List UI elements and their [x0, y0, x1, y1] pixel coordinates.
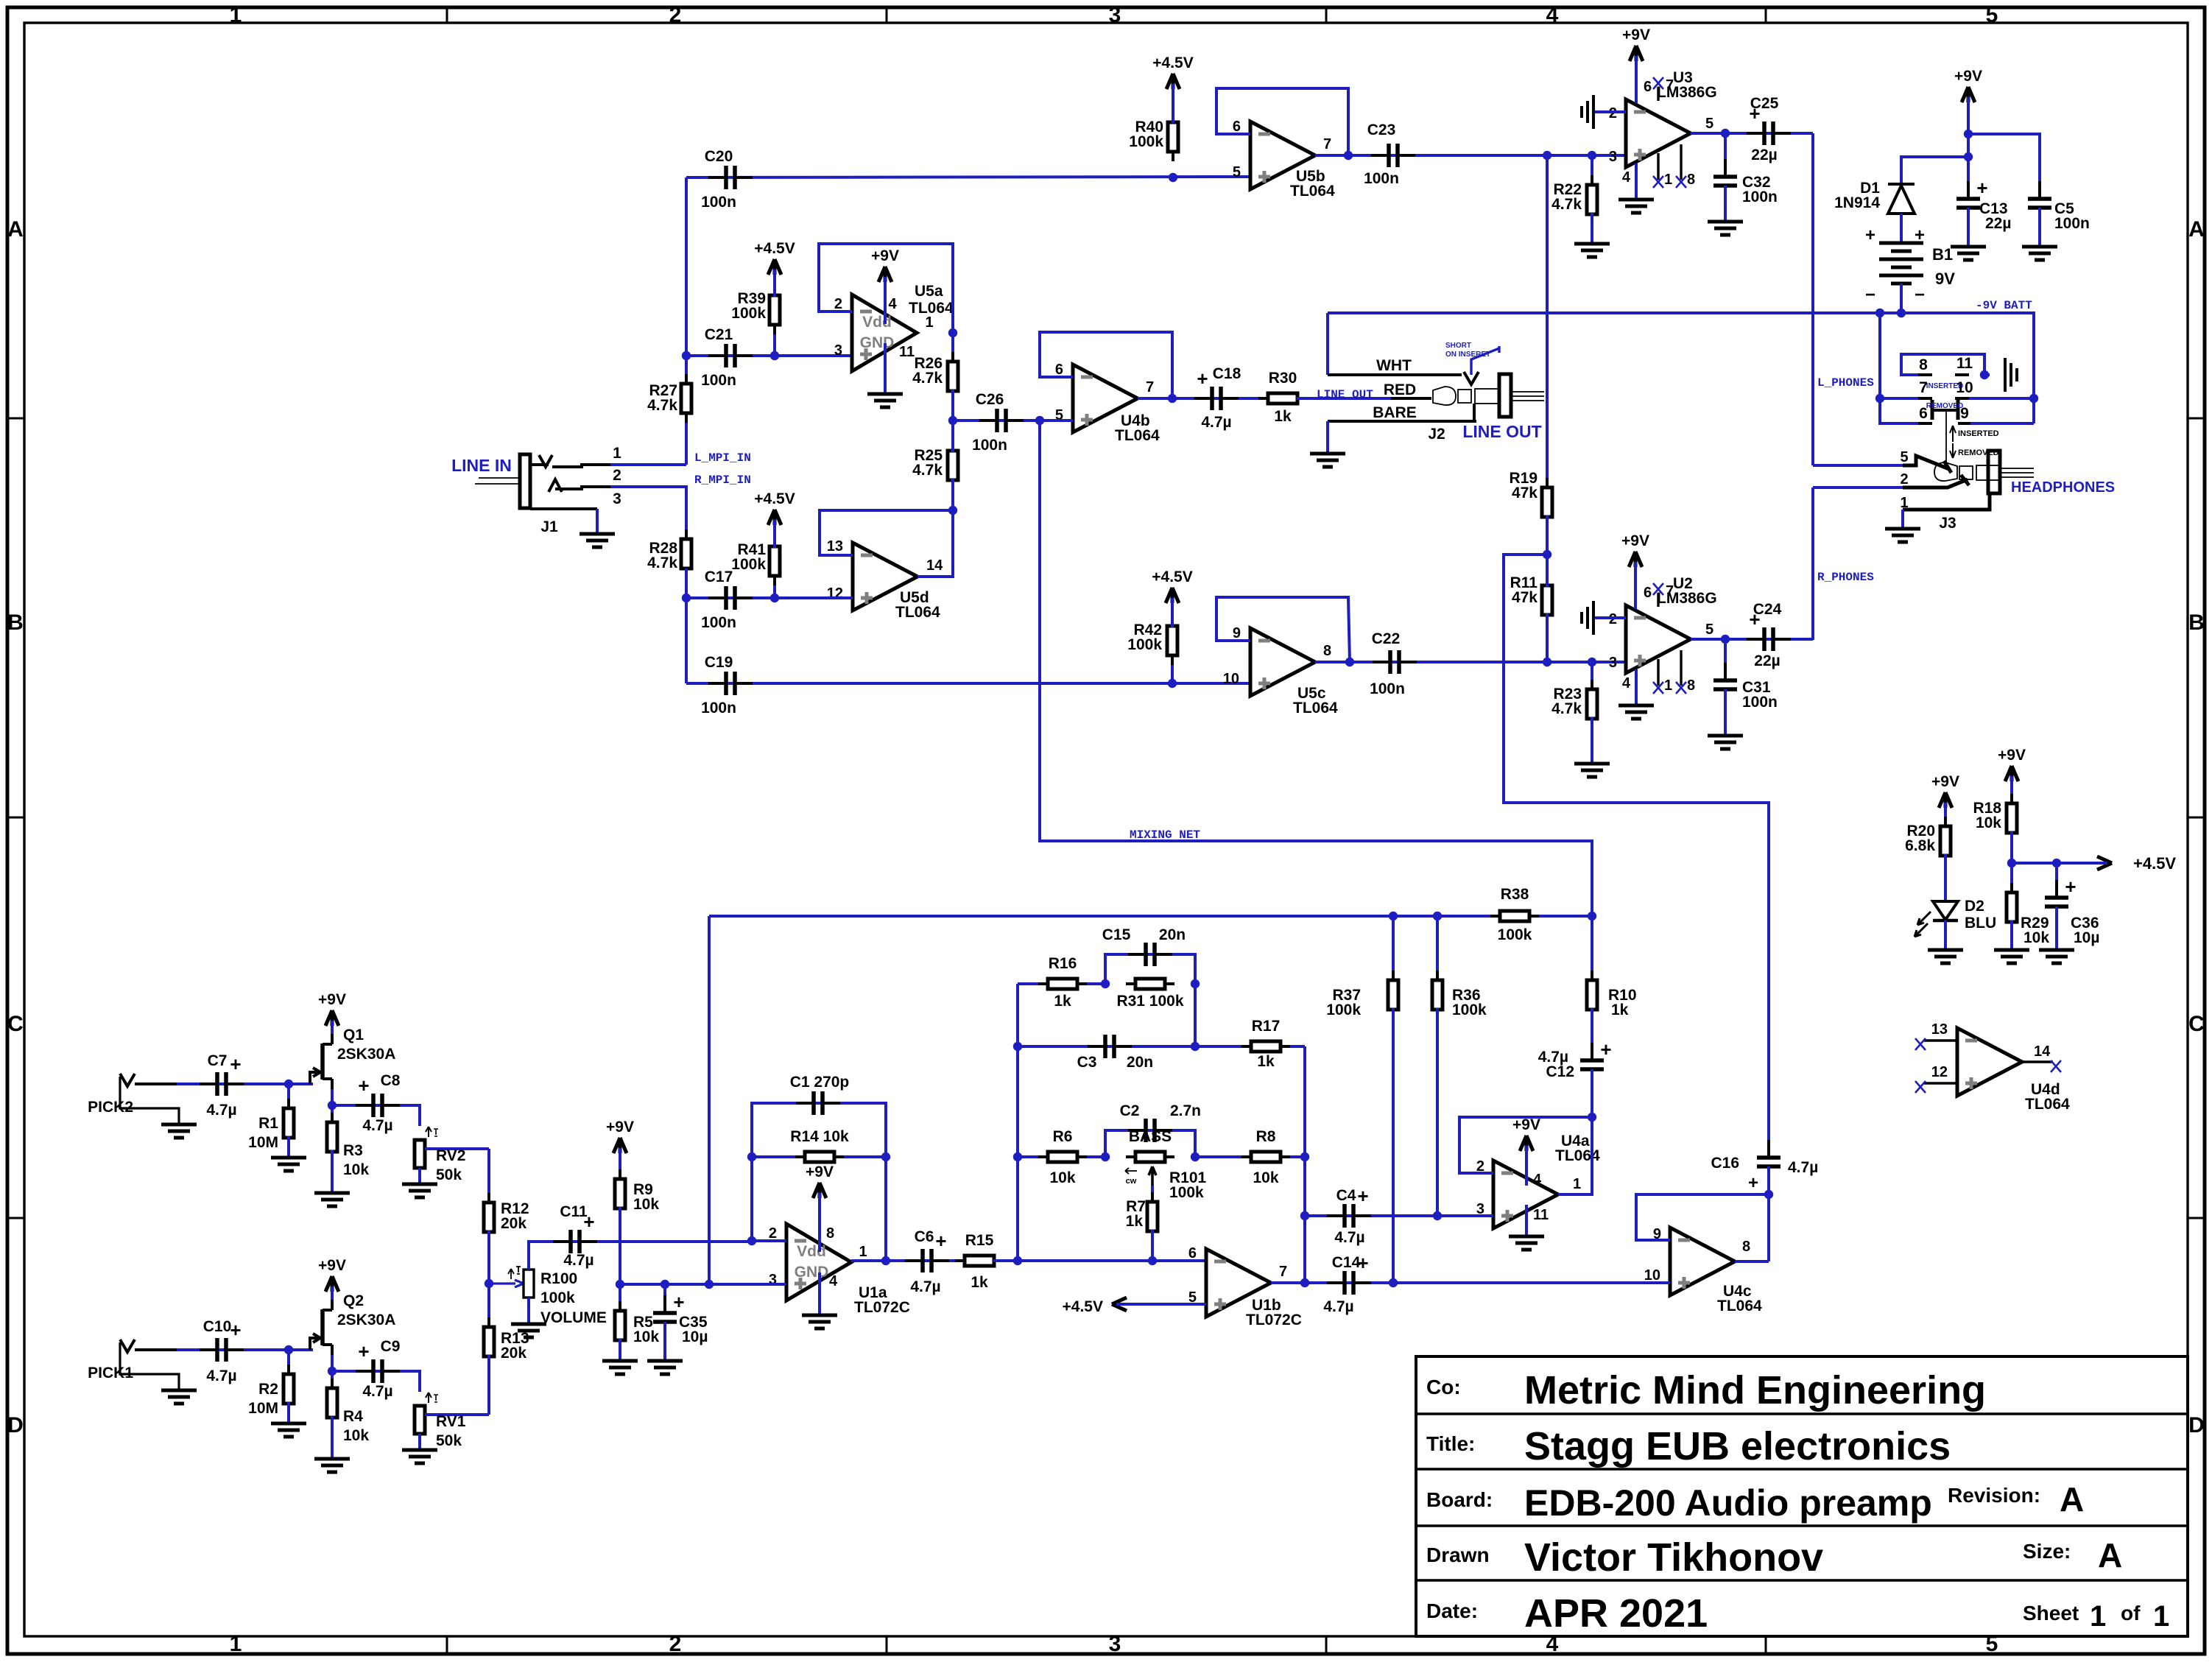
- svg-text:B: B: [7, 610, 24, 635]
- svg-text:B: B: [2188, 610, 2205, 635]
- svg-text:+: +: [230, 1319, 241, 1341]
- wire U4a feedback: [1459, 1117, 1592, 1173]
- svg-text:RV1: RV1: [436, 1413, 466, 1430]
- wire R17 to U1b output column: [1303, 1046, 1306, 1283]
- svg-text:J2: J2: [1428, 426, 1445, 443]
- svg-text:C10: C10: [203, 1318, 232, 1335]
- svg-text:+4.5V: +4.5V: [754, 490, 795, 507]
- svg-text:INSERTED: INSERTED: [1958, 429, 1999, 438]
- svg-text:TL064: TL064: [895, 604, 940, 621]
- svg-text:4: 4: [829, 1273, 838, 1289]
- svg-text:100n: 100n: [701, 372, 736, 389]
- capacitor C12 4.7u: [1591, 1043, 1593, 1060]
- transistor Q1 2SK30A: [320, 1043, 325, 1080]
- svg-text:2: 2: [669, 1632, 682, 1656]
- svg-text:+: +: [1865, 225, 1875, 245]
- op-amp U4c: [1670, 1228, 1735, 1295]
- svg-text:D: D: [2188, 1413, 2205, 1437]
- +4.5V output arrow: [2097, 856, 2112, 870]
- svg-text:Board:: Board:: [1426, 1488, 1493, 1511]
- ground at PICK1: [161, 1389, 197, 1393]
- junction U1a output: [881, 1256, 890, 1265]
- svg-text:2: 2: [613, 467, 621, 484]
- svg-text:22µ: 22µ: [1754, 652, 1780, 669]
- junction battery line B1: [1897, 309, 1906, 317]
- op-amp U1a: [786, 1224, 851, 1300]
- op-amp U5b: [1250, 122, 1315, 189]
- resistor R17: [1195, 1045, 1305, 1048]
- junction R14 right: [881, 1152, 890, 1161]
- svg-text:4.7µ: 4.7µ: [206, 1367, 236, 1384]
- svg-text:BASS: BASS: [1129, 1128, 1172, 1145]
- svg-text:MIXING NET: MIXING NET: [1130, 828, 1200, 842]
- svg-text:+9V: +9V: [1998, 747, 2026, 764]
- svg-text:+: +: [2065, 876, 2076, 898]
- connector PICK1: [120, 1340, 135, 1352]
- svg-text:BARE: BARE: [1373, 404, 1417, 421]
- resistor R19: [1546, 155, 1549, 489]
- svg-text:LINE OUT: LINE OUT: [1317, 388, 1373, 401]
- svg-text:1: 1: [1664, 677, 1672, 694]
- svg-text:10M: 10M: [248, 1400, 278, 1417]
- svg-text:Vdd: Vdd: [797, 1243, 826, 1260]
- svg-text:LINE OUT: LINE OUT: [1462, 422, 1541, 441]
- svg-text:BLU: BLU: [1965, 915, 1996, 932]
- svg-text:20n: 20n: [1127, 1054, 1153, 1071]
- capacitor C14 4.7u: [1305, 1281, 1670, 1284]
- svg-text:1: 1: [613, 445, 621, 462]
- svg-text:C23: C23: [1367, 122, 1396, 138]
- op-amp U4b: [1073, 365, 1138, 432]
- svg-text:8: 8: [1742, 1239, 1750, 1255]
- resistor R22: [1591, 155, 1593, 186]
- wire U4b feedback: [1040, 332, 1172, 398]
- junction U5c output: [1345, 658, 1354, 666]
- svg-text:100n: 100n: [701, 194, 736, 211]
- svg-text:4.7µ: 4.7µ: [206, 1102, 236, 1119]
- svg-text:100n: 100n: [972, 437, 1007, 454]
- svg-text:R14 10k: R14 10k: [790, 1128, 849, 1145]
- ground at U5a: [867, 393, 903, 396]
- svg-text:22µ: 22µ: [1985, 215, 2011, 232]
- svg-text:+: +: [358, 1074, 369, 1096]
- svg-text:100k: 100k: [731, 556, 766, 573]
- svg-text:9: 9: [1960, 405, 1969, 422]
- svg-text:A: A: [7, 217, 24, 242]
- svg-text:TL072C: TL072C: [1246, 1312, 1302, 1328]
- op-amp U5c: [1250, 628, 1315, 696]
- junction C23/R19 column: [1543, 151, 1551, 160]
- svg-text:D2: D2: [1965, 898, 1984, 915]
- junction R38 right / mixing net: [1588, 912, 1596, 920]
- capacitor C18 4.7u: [1172, 397, 1270, 400]
- svg-text:100n: 100n: [1370, 680, 1405, 697]
- svg-text:+: +: [1748, 1173, 1758, 1193]
- svg-text:+9V: +9V: [806, 1164, 834, 1180]
- svg-text:C22: C22: [1372, 630, 1401, 647]
- resistor R27: [685, 356, 688, 465]
- svg-text:9: 9: [1233, 625, 1241, 641]
- svg-text:1: 1: [2153, 1600, 2169, 1633]
- svg-text:4.7µ: 4.7µ: [362, 1117, 392, 1134]
- svg-text:2: 2: [834, 296, 842, 312]
- svg-text:13: 13: [827, 538, 843, 555]
- svg-text:R30: R30: [1269, 370, 1297, 387]
- junction R6 left: [1013, 1152, 1022, 1161]
- svg-text:4.7µ: 4.7µ: [362, 1383, 392, 1400]
- sideways ground at U2 pin2: [1595, 616, 1626, 619]
- svg-text:R8: R8: [1256, 1128, 1276, 1145]
- svg-text:+9V: +9V: [1622, 27, 1650, 43]
- svg-text:C: C: [7, 1012, 24, 1036]
- svg-text:VOLUME: VOLUME: [540, 1309, 607, 1326]
- svg-text:C25: C25: [1750, 95, 1779, 112]
- svg-text:Q1: Q1: [343, 1027, 364, 1043]
- ground at R4: [314, 1457, 350, 1461]
- junction C35 top: [661, 1280, 669, 1289]
- svg-text:PICK2: PICK2: [88, 1099, 133, 1116]
- junction pin7: [1875, 394, 1884, 403]
- svg-text:6: 6: [1644, 79, 1652, 95]
- capacitor C21: [686, 354, 852, 357]
- svg-text:2SK30A: 2SK30A: [337, 1312, 395, 1328]
- svg-text:20n: 20n: [1159, 926, 1186, 943]
- wire C20 net vertical: [685, 177, 688, 356]
- svg-text:-9V BATT: -9V BATT: [1976, 299, 2032, 312]
- svg-text:Date:: Date:: [1426, 1599, 1478, 1622]
- svg-text:Stagg EUB electronics: Stagg EUB electronics: [1524, 1424, 1951, 1468]
- wire +4.5V node: [2012, 862, 2057, 865]
- svg-text:4.7µ: 4.7µ: [563, 1252, 593, 1269]
- wire +9V to C5: [1968, 134, 2040, 193]
- svg-text:10k: 10k: [343, 1161, 369, 1178]
- svg-text:7: 7: [1666, 77, 1674, 94]
- svg-text:10µ: 10µ: [2074, 929, 2099, 946]
- svg-text:47k: 47k: [1512, 485, 1538, 501]
- svg-text:12: 12: [1931, 1064, 1948, 1080]
- capacitor C8 4.7u: [332, 1105, 420, 1126]
- svg-text:B1: B1: [1932, 245, 1953, 264]
- junction pin10: [2029, 394, 2038, 403]
- svg-text:+9V: +9V: [1954, 68, 1982, 85]
- svg-text:100k: 100k: [1326, 1002, 1361, 1018]
- svg-text:10: 10: [1956, 379, 1973, 396]
- resistor R11: [1546, 576, 1549, 585]
- svg-text:10k: 10k: [1049, 1169, 1075, 1186]
- svg-text:11: 11: [899, 344, 915, 360]
- svg-text:3: 3: [1609, 655, 1617, 671]
- svg-text:TL064: TL064: [909, 300, 954, 317]
- wire tone column left: [1016, 984, 1019, 1261]
- svg-text:REMOVED: REMOVED: [1926, 402, 1964, 410]
- svg-text:A: A: [2098, 1536, 2122, 1574]
- svg-text:+9V: +9V: [1512, 1116, 1540, 1133]
- diode D1 1N914: [1888, 183, 1915, 186]
- sideways ground at U3 pin2: [1595, 110, 1626, 113]
- svg-text:C7: C7: [208, 1052, 228, 1069]
- wire U1a output to C6: [851, 1259, 886, 1262]
- junction C21/R39: [770, 351, 779, 360]
- svg-text:4.7k: 4.7k: [647, 555, 677, 571]
- wire U5a pin11 to ground: [884, 343, 887, 394]
- junction pin11: [1980, 370, 1989, 379]
- svg-text:4: 4: [1622, 169, 1631, 186]
- potentiometer RV1 50k: [415, 1406, 425, 1434]
- wire U5d feedback: [820, 510, 953, 555]
- svg-text:C12: C12: [1546, 1063, 1574, 1080]
- svg-text:100n: 100n: [701, 700, 736, 717]
- resistor R30: [1258, 397, 1268, 400]
- svg-text:14: 14: [2034, 1043, 2051, 1060]
- svg-text:+: +: [1976, 177, 1987, 199]
- wire U1a pin3 row: [620, 1283, 786, 1286]
- svg-text:+9V: +9V: [1931, 773, 1959, 790]
- svg-text:C16: C16: [1711, 1155, 1739, 1172]
- junction C3 left: [1013, 1042, 1022, 1051]
- wire Q2 source: [331, 1355, 334, 1371]
- svg-text:2: 2: [669, 3, 682, 27]
- svg-text:Victor Tikhonov: Victor Tikhonov: [1524, 1535, 1823, 1580]
- ground at R2: [271, 1422, 306, 1426]
- svg-text:5: 5: [1705, 116, 1713, 132]
- svg-text:C1 270p: C1 270p: [790, 1074, 850, 1091]
- wire B1 minus to switch net: [1900, 284, 1903, 313]
- svg-text:+9V: +9V: [871, 247, 899, 264]
- ground at R3: [314, 1191, 350, 1195]
- svg-text:C8: C8: [381, 1072, 401, 1089]
- svg-text:C: C: [2188, 1012, 2205, 1036]
- capacitor C15 branch: [1105, 954, 1195, 984]
- battery B1 9V: [1879, 242, 1923, 245]
- svg-text:100k: 100k: [731, 305, 766, 322]
- svg-text:100k: 100k: [540, 1289, 575, 1306]
- svg-text:1k: 1k: [971, 1274, 988, 1291]
- svg-text:10: 10: [1644, 1267, 1660, 1284]
- wire R14 right to U1a output: [884, 1157, 887, 1261]
- svg-text:1: 1: [859, 1244, 867, 1260]
- wire U5b output: [1315, 154, 1348, 157]
- svg-text:U5a: U5a: [915, 283, 943, 300]
- capacitor C23: [1348, 154, 1626, 157]
- wire U1a pin4 to ground: [818, 1272, 821, 1315]
- resistor R40: [1172, 113, 1174, 122]
- wire J1 pin3 to ground: [596, 509, 599, 534]
- svg-text:C19: C19: [705, 654, 733, 671]
- svg-text:10k: 10k: [1253, 1169, 1278, 1186]
- svg-text:5: 5: [1705, 622, 1713, 638]
- svg-text:100n: 100n: [1742, 694, 1778, 711]
- svg-text:4: 4: [1546, 3, 1559, 27]
- op-amp U4a: [1493, 1161, 1558, 1228]
- capacitor C7 4.7u: [177, 1083, 313, 1085]
- svg-text:2: 2: [769, 1225, 777, 1242]
- svg-text:R17: R17: [1252, 1018, 1281, 1035]
- svg-text:50k: 50k: [436, 1166, 462, 1183]
- junction R11 bottom at C22 row: [1543, 658, 1551, 666]
- svg-text:LINE IN: LINE IN: [451, 456, 512, 475]
- junction C23/R22: [1588, 151, 1596, 160]
- wire U4a pin11 to ground: [1525, 1205, 1528, 1236]
- wire J1 pin2 to R28: [610, 487, 686, 532]
- resistor R38: [1490, 915, 1500, 918]
- svg-text:Sheet: Sheet: [2023, 1602, 2079, 1624]
- wire U1b output: [1271, 1281, 1305, 1284]
- capacitor C6 4.7u: [886, 1259, 965, 1262]
- svg-text:100k: 100k: [1452, 1002, 1487, 1018]
- U2 unused pins 1 8: [1657, 659, 1659, 686]
- capacitor C26: [953, 419, 1040, 422]
- svg-text:100n: 100n: [701, 614, 736, 631]
- svg-text:+: +: [673, 1291, 684, 1313]
- junction R8 right: [1300, 1152, 1309, 1161]
- resistor R7: [1151, 1186, 1154, 1203]
- svg-text:R38: R38: [1501, 886, 1529, 903]
- svg-text:1k: 1k: [1611, 1002, 1629, 1018]
- capacitor C11 4.7u: [553, 1240, 570, 1243]
- svg-text:100k: 100k: [1169, 1184, 1204, 1201]
- junction C10/R2: [284, 1345, 293, 1354]
- svg-text:4.7k: 4.7k: [1551, 700, 1582, 717]
- svg-text:C2: C2: [1120, 1102, 1140, 1119]
- junction R26/R25/C26: [948, 416, 957, 425]
- svg-text:4.7µ: 4.7µ: [1201, 414, 1231, 431]
- wire U1a pin2 row: [752, 1239, 786, 1242]
- svg-text:Drawn: Drawn: [1426, 1543, 1490, 1566]
- capacitor C5 100n: [2038, 181, 2041, 198]
- wire R28 to C19 corner: [685, 598, 688, 683]
- wire D1 anode to B1: [1900, 214, 1903, 243]
- svg-text:+: +: [1915, 225, 1925, 245]
- resistor R6: [1018, 1155, 1105, 1158]
- svg-text:1N914: 1N914: [1834, 194, 1880, 211]
- junction U5a output: [948, 328, 957, 337]
- J2 insert switch lever: [1471, 346, 1499, 375]
- svg-text:+4.5V: +4.5V: [754, 240, 795, 257]
- svg-text:1: 1: [2090, 1600, 2106, 1633]
- svg-text:2SK30A: 2SK30A: [337, 1046, 395, 1063]
- capacitor C31: [1724, 639, 1727, 680]
- capacitor C2 branch: [1105, 1130, 1195, 1157]
- resistor R25: [951, 441, 954, 451]
- junction C36 top: [2052, 859, 2061, 867]
- junction C20/R40: [1169, 173, 1177, 182]
- svg-text:C18: C18: [1213, 365, 1241, 382]
- svg-text:HEADPHONES: HEADPHONES: [2011, 479, 2115, 496]
- svg-text:Revision:: Revision:: [1948, 1484, 2040, 1507]
- svg-text:+4.5V: +4.5V: [1152, 569, 1192, 585]
- capacitor C9 4.7u: [332, 1371, 420, 1392]
- svg-text:47k: 47k: [1512, 589, 1538, 606]
- op-amp U4d spare: [1957, 1028, 2022, 1096]
- wire R100 bottom to ground: [527, 1298, 530, 1324]
- wire MIXING NET: [1040, 420, 1592, 916]
- svg-text:+: +: [1197, 367, 1208, 390]
- svg-text:C11: C11: [560, 1203, 588, 1220]
- capacitor C32: [1724, 133, 1727, 177]
- junction +9V/D1/C13: [1964, 152, 1973, 161]
- junction U2 output: [1721, 635, 1730, 644]
- ground at RV2: [402, 1183, 437, 1186]
- svg-text:7: 7: [1279, 1264, 1287, 1280]
- ground at R1: [271, 1156, 306, 1160]
- junction +9V/C5 branch: [1964, 130, 1973, 138]
- svg-text:1k: 1k: [1126, 1213, 1144, 1230]
- svg-text:J3: J3: [1939, 515, 1956, 532]
- capacitor C10 4.7u: [177, 1348, 313, 1351]
- svg-text:R_PHONES: R_PHONES: [1817, 571, 1874, 584]
- svg-text:Metric Mind Engineering: Metric Mind Engineering: [1524, 1368, 1986, 1412]
- resistor R36: [1436, 916, 1439, 982]
- svg-text:+: +: [935, 1230, 946, 1252]
- svg-text:R16: R16: [1049, 955, 1077, 972]
- svg-text:2: 2: [1900, 471, 1908, 487]
- connector PICK2: [120, 1074, 135, 1086]
- capacitor C22: [1350, 661, 1626, 663]
- svg-text:EDB-200 Audio preamp: EDB-200 Audio preamp: [1524, 1482, 1932, 1524]
- wire BARE to ground: [1326, 421, 1329, 454]
- svg-text:20k: 20k: [501, 1215, 526, 1232]
- wire WHT switched line: [1326, 313, 1329, 375]
- svg-text:+9V: +9V: [606, 1119, 634, 1136]
- svg-text:22µ: 22µ: [1751, 147, 1777, 163]
- junction R12/R13/volume wiper: [485, 1279, 493, 1288]
- op-amp U3: [1626, 99, 1691, 167]
- ground at R5: [602, 1359, 638, 1363]
- wire Q1 source: [331, 1089, 334, 1105]
- junction U1b output: [1300, 1278, 1309, 1287]
- wire bias row left vertical: [708, 916, 711, 1284]
- svg-text:APR 2021: APR 2021: [1524, 1591, 1708, 1636]
- resistor R12: [487, 1149, 490, 1204]
- capacitor C4 4.7u: [1303, 1157, 1306, 1283]
- svg-text:of: of: [2121, 1602, 2141, 1624]
- svg-text:4: 4: [888, 296, 897, 312]
- op-amp U5d: [853, 543, 917, 610]
- op-amp U1b: [1206, 1249, 1271, 1317]
- svg-text:3: 3: [1109, 1632, 1121, 1656]
- potentiometer R101 BASS: [1126, 1155, 1135, 1158]
- U3 pin 4 to ground: [1635, 163, 1638, 200]
- svg-text:R3: R3: [343, 1142, 363, 1159]
- svg-text:10k: 10k: [1976, 814, 2001, 831]
- svg-text:R_MPI_IN: R_MPI_IN: [694, 474, 751, 487]
- wire U5c output: [1315, 661, 1350, 663]
- resistor R8: [1195, 1155, 1305, 1158]
- svg-text:D: D: [7, 1413, 24, 1437]
- svg-text:4.7µ: 4.7µ: [910, 1278, 940, 1295]
- U2 pin 4 to ground: [1635, 669, 1638, 705]
- U2 unused pin 7: [1657, 593, 1659, 607]
- svg-text:+: +: [1600, 1038, 1611, 1060]
- wire U4c output: [1735, 1260, 1769, 1263]
- junction C19/R42: [1168, 679, 1177, 688]
- svg-text:4.7k: 4.7k: [647, 397, 677, 414]
- headphone switch pins 7-10 row: [1880, 397, 1918, 400]
- svg-text:6: 6: [1644, 585, 1652, 601]
- junction battery line left: [1875, 309, 1884, 317]
- ground at D2: [1928, 948, 1963, 952]
- wire U4b output: [1138, 397, 1172, 400]
- svg-text:4: 4: [1622, 675, 1631, 691]
- resistor R3 10k: [331, 1105, 334, 1124]
- svg-text:+9V: +9V: [318, 1257, 346, 1274]
- resistor R1 10M: [287, 1084, 290, 1110]
- resistor R4 10k: [331, 1371, 334, 1390]
- junction R36 top: [1433, 912, 1442, 920]
- svg-text:1: 1: [230, 3, 242, 27]
- svg-text:C4: C4: [1336, 1187, 1356, 1204]
- svg-text:7: 7: [1146, 379, 1154, 395]
